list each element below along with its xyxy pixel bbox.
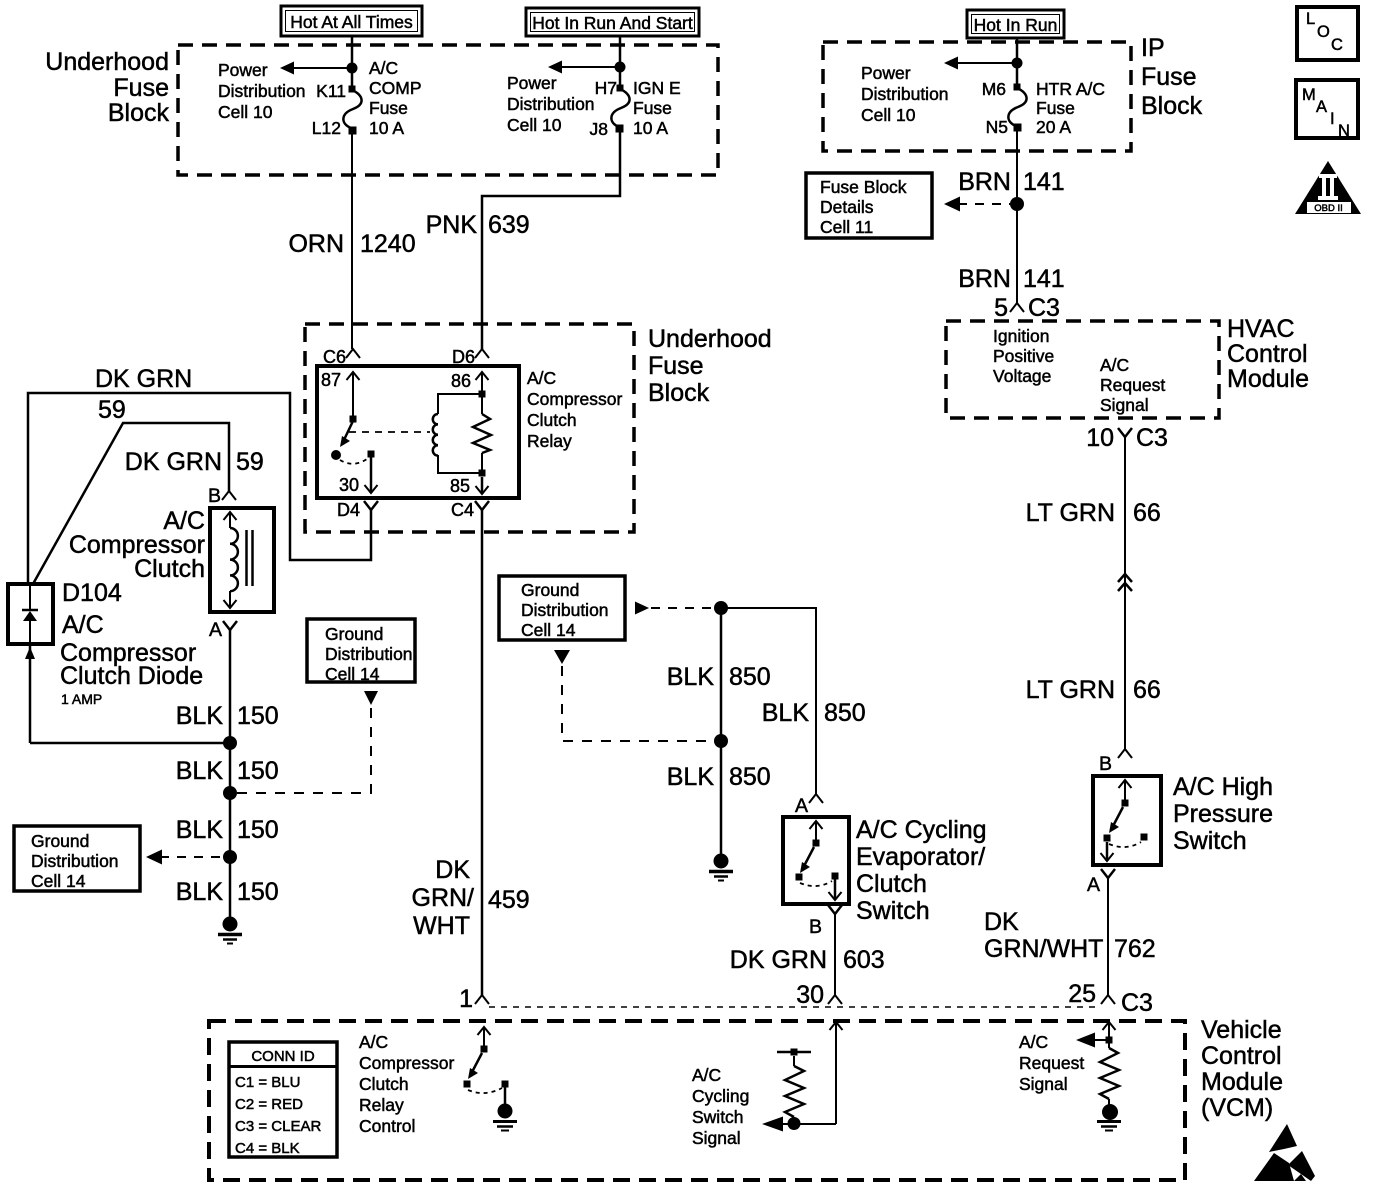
connector pin 10 C3 (HVAC) xyxy=(1086,424,1168,452)
node: splice S4 (BLK 850 upper) xyxy=(714,601,728,615)
svg-text:Control: Control xyxy=(1201,1042,1282,1070)
label: BLK 150 (1) xyxy=(176,702,279,730)
relay pin 87 arrow xyxy=(321,370,360,416)
label: A/C Compressor Clutch xyxy=(69,507,205,583)
connector pin A (compressor clutch) xyxy=(209,619,237,641)
svg-text:Underhood: Underhood xyxy=(45,48,169,76)
IP fuse block boundary xyxy=(823,42,1131,151)
svg-text:N5: N5 xyxy=(986,117,1008,137)
svg-text:Control: Control xyxy=(359,1116,415,1136)
svg-text:Fuse: Fuse xyxy=(633,98,672,118)
label: ORN 1240 xyxy=(288,230,415,258)
ground: G (left BLK 150) xyxy=(218,917,242,944)
wire: Hot At All Times feed to A/C COMP fuse xyxy=(351,36,354,88)
svg-text:Distribution: Distribution xyxy=(861,84,949,104)
relay switch contact (pin 30 side) xyxy=(331,450,341,460)
wire: DK GRN 59 branch (diode to clutch B) xyxy=(33,423,229,584)
label: Power Distribution Cell 10 (second) xyxy=(507,73,595,135)
label: A/C Compressor Clutch Relay Control xyxy=(359,1032,454,1136)
svg-text:Distribution: Distribution xyxy=(521,600,609,620)
dashed link: lower tap to splice S5 xyxy=(562,666,712,741)
svg-text:66: 66 xyxy=(1133,499,1161,527)
dashed link: splice S2 to Ground Distribution (right) xyxy=(237,706,371,793)
svg-text:K11: K11 xyxy=(316,81,346,101)
ground: VCM request signal xyxy=(1097,1104,1121,1131)
svg-text:OBD II: OBD II xyxy=(1314,203,1343,214)
svg-text:Cycling: Cycling xyxy=(692,1086,749,1106)
svg-text:10 A: 10 A xyxy=(633,118,668,138)
svg-text:GRN/WHT: GRN/WHT xyxy=(984,935,1103,963)
svg-text:A/C: A/C xyxy=(62,611,104,639)
svg-text:LT GRN: LT GRN xyxy=(1026,676,1115,704)
VCM driver: relay control switch xyxy=(464,1027,509,1104)
svg-text:DK GRN: DK GRN xyxy=(95,365,192,393)
svg-text:150: 150 xyxy=(237,702,279,730)
svg-text:1 AMP: 1 AMP xyxy=(61,691,102,707)
svg-text:Request: Request xyxy=(1100,375,1165,395)
svg-text:Hot At All Times: Hot At All Times xyxy=(290,12,413,32)
label: DK GRN 59 (branch) xyxy=(125,448,264,476)
svg-text:Fuse Block: Fuse Block xyxy=(820,177,907,197)
svg-text:10 A: 10 A xyxy=(369,118,404,138)
label: BLK 150 (2) xyxy=(176,757,279,785)
connector pin B (cycling switch) xyxy=(809,905,842,938)
svg-text:L12: L12 xyxy=(312,118,341,138)
relay coil suppression resistor xyxy=(473,397,491,470)
svg-text:59: 59 xyxy=(236,448,264,476)
relay coil xyxy=(433,391,486,474)
label: BLK 850 (1) xyxy=(667,663,771,691)
svg-text:Power: Power xyxy=(507,73,557,93)
A/C compressor clutch coil xyxy=(210,508,274,612)
label: BLK 850 (3) xyxy=(667,763,771,791)
wire: BLK 150 (clutch A down to ground) xyxy=(229,630,232,924)
node: junction above IGN E fuse xyxy=(615,62,626,73)
svg-text:850: 850 xyxy=(729,663,771,691)
svg-text:Ground: Ground xyxy=(325,624,383,644)
svg-text:Compressor: Compressor xyxy=(527,389,622,409)
node: splice S2 xyxy=(223,786,237,800)
VCM connector row (thin dashed) xyxy=(489,1006,1101,1008)
svg-text:J8: J8 xyxy=(590,119,608,139)
svg-text:150: 150 xyxy=(237,757,279,785)
svg-text:C3: C3 xyxy=(1028,294,1060,322)
svg-text:A/C: A/C xyxy=(359,1032,388,1052)
svg-text:Cell 10: Cell 10 xyxy=(218,102,273,122)
svg-text:850: 850 xyxy=(729,763,771,791)
svg-text:BRN: BRN xyxy=(958,168,1011,196)
arrow: cycling switch signal to label xyxy=(762,1117,792,1132)
svg-text:Distribution: Distribution xyxy=(325,644,413,664)
svg-text:BLK: BLK xyxy=(667,763,715,791)
svg-text:459: 459 xyxy=(488,886,530,914)
svg-text:Power: Power xyxy=(218,60,268,80)
node: splice S5 (BLK 850 lower) xyxy=(714,734,728,748)
label: BLK 150 (3) xyxy=(176,816,279,844)
wire: Hot In Run feed to HTR A/C fuse xyxy=(1016,38,1019,87)
svg-text:20 A: 20 A xyxy=(1036,117,1071,137)
svg-text:Clutch: Clutch xyxy=(134,555,205,583)
svg-text:A/C: A/C xyxy=(1019,1032,1048,1052)
svg-text:C4 = BLK: C4 = BLK xyxy=(235,1140,300,1157)
svg-text:B: B xyxy=(809,916,822,938)
svg-text:850: 850 xyxy=(824,699,866,727)
label: Underhood Fuse Block (top) xyxy=(45,48,169,127)
svg-text:Fuse: Fuse xyxy=(113,74,169,102)
wire: BLK 850 to ground xyxy=(720,608,723,860)
node: splice S3 xyxy=(223,850,237,864)
svg-text:Hot In Run: Hot In Run xyxy=(974,15,1058,35)
svg-text:D104: D104 xyxy=(62,579,122,607)
fuse: HTR A/C Fuse 20 A (terminals M6 / N5) xyxy=(982,79,1105,137)
svg-text:I: I xyxy=(1330,110,1335,128)
connector pin D6 xyxy=(452,347,489,367)
svg-text:IP: IP xyxy=(1141,34,1165,62)
switch: A/C Cycling Evaporator/Clutch Switch xyxy=(783,817,849,904)
svg-text:Switch: Switch xyxy=(856,897,930,925)
svg-text:WHT: WHT xyxy=(413,912,470,940)
svg-text:Cell 10: Cell 10 xyxy=(861,105,916,125)
label: A/C Request Signal (HVAC) xyxy=(1100,355,1165,415)
relay contact dashed throw xyxy=(340,459,367,464)
relay U: A/C Compressor Clutch Relay box xyxy=(317,366,519,498)
label: BLK 850 (2) xyxy=(762,699,866,727)
label: PNK 639 xyxy=(426,211,530,239)
VCM cycling switch signal input xyxy=(777,1022,843,1124)
svg-text:O: O xyxy=(1317,23,1330,41)
svg-text:Cell 14: Cell 14 xyxy=(31,871,86,891)
svg-text:Positive: Positive xyxy=(993,346,1054,366)
diode D104: A/C Compressor Clutch Diode xyxy=(8,584,53,644)
svg-text:Switch: Switch xyxy=(1173,827,1247,855)
connector pin B (high pressure switch) xyxy=(1099,749,1132,775)
wire: Hot In Run And Start feed to IGN E fuse xyxy=(619,36,622,88)
svg-text:L: L xyxy=(1306,10,1315,28)
svg-text:Cell 14: Cell 14 xyxy=(325,664,380,684)
svg-text:A/C Cycling: A/C Cycling xyxy=(856,816,987,844)
svg-text:Cell 10: Cell 10 xyxy=(507,115,562,135)
wire: DK GRN/WHT 459 (relay C4 down to VCM pin 1) xyxy=(481,510,484,995)
svg-text:Power: Power xyxy=(861,63,911,83)
svg-text:762: 762 xyxy=(1114,935,1156,963)
svg-text:BLK: BLK xyxy=(762,699,810,727)
svg-text:(VCM): (VCM) xyxy=(1201,1094,1273,1122)
icon: LOC box xyxy=(1297,7,1358,60)
connector pin A (cycling switch) xyxy=(795,794,823,817)
underhood fuse block boundary (top) xyxy=(178,45,718,175)
svg-text:150: 150 xyxy=(237,878,279,906)
ref box: Fuse Block Details Cell 11 xyxy=(806,173,932,238)
svg-text:Ground: Ground xyxy=(521,580,579,600)
wire: LT GRN 66 (HVAC pin 10 down to high pressure switch B) xyxy=(1124,437,1126,749)
node: junction above HTR A/C fuse xyxy=(1012,58,1023,69)
wire: PNK 639 (fuse J8 down to relay D6) xyxy=(482,132,620,349)
svg-text:BLK: BLK xyxy=(176,878,224,906)
icon: ESD warning logo xyxy=(1254,1124,1315,1181)
svg-text:A/C: A/C xyxy=(1100,355,1129,375)
node: junction above A/C COMP fuse xyxy=(347,63,358,74)
svg-text:COMP: COMP xyxy=(369,78,422,98)
wire: BLK 850 to cycling switch A xyxy=(721,608,816,794)
svg-text:Signal: Signal xyxy=(1100,395,1149,415)
svg-text:BLK: BLK xyxy=(176,816,224,844)
svg-text:A: A xyxy=(1316,98,1327,116)
svg-text:BLK: BLK xyxy=(176,757,224,785)
svg-text:LT GRN: LT GRN xyxy=(1026,499,1115,527)
ground: G (BLK 850) xyxy=(709,854,733,881)
dashed arrow: splice S3 to Ground Distribution (left) xyxy=(146,850,223,865)
svg-text:141: 141 xyxy=(1023,265,1065,293)
ref box: Ground Distribution Cell 14 (center) xyxy=(499,576,625,640)
svg-text:Module: Module xyxy=(1227,365,1309,393)
connector pin 30 (VCM) xyxy=(796,981,842,1009)
relay pin 85 arrow xyxy=(450,470,489,497)
svg-text:30: 30 xyxy=(339,475,359,495)
arrow: to Power Distribution Cell 10 (IP) xyxy=(944,57,1017,70)
connector pin C6 xyxy=(323,347,360,367)
svg-text:5: 5 xyxy=(994,294,1008,322)
label: BLK 150 (4) xyxy=(176,878,279,906)
svg-text:B: B xyxy=(208,485,221,507)
svg-text:Details: Details xyxy=(820,197,874,217)
svg-text:Module: Module xyxy=(1201,1068,1283,1096)
flag: Hot At All Times xyxy=(281,6,422,36)
HVAC control module boundary xyxy=(946,321,1219,418)
svg-text:C2 = RED: C2 = RED xyxy=(235,1096,303,1113)
svg-text:Underhood: Underhood xyxy=(648,325,772,353)
svg-text:BLK: BLK xyxy=(667,663,715,691)
svg-text:Clutch: Clutch xyxy=(527,410,577,430)
fuse: IGN E Fuse 10 A (terminals H7 / J8) xyxy=(590,78,681,139)
svg-text:PNK: PNK xyxy=(426,211,478,239)
arrow: to Power Distribution Cell 10 (second) xyxy=(548,61,620,74)
svg-text:87: 87 xyxy=(321,370,341,390)
svg-text:HTR A/C: HTR A/C xyxy=(1036,79,1105,99)
switch: A/C High Pressure Switch xyxy=(1093,776,1161,865)
label: DK GRN/WHT 762 xyxy=(984,908,1156,963)
svg-text:A/C: A/C xyxy=(369,58,398,78)
label: HVAC Control Module xyxy=(1227,315,1309,393)
svg-text:141: 141 xyxy=(1023,168,1065,196)
label: A/C Cycling Evaporator/ Clutch Switch xyxy=(856,816,987,925)
svg-text:DK: DK xyxy=(984,908,1019,936)
svg-text:A: A xyxy=(795,795,808,817)
label: Vehicle Control Module (VCM) xyxy=(1201,1016,1283,1122)
svg-text:A: A xyxy=(209,619,222,641)
svg-text:Ground: Ground xyxy=(31,831,89,851)
flag: Hot In Run And Start xyxy=(526,8,699,36)
arrow: Ground Distribution (center) lower tap xyxy=(554,650,570,664)
svg-text:85: 85 xyxy=(450,476,470,496)
connector pin D4 xyxy=(337,500,378,520)
svg-text:30: 30 xyxy=(796,981,824,1009)
wire: diode to BLK 150 splice (with direction arrow) xyxy=(25,644,230,743)
svg-text:Cell 11: Cell 11 xyxy=(820,217,873,237)
arrow: request signal to label xyxy=(1076,1033,1109,1048)
wire: DK GRN 603 (cycling switch B down to VCM pin 30) xyxy=(834,914,836,995)
svg-text:59: 59 xyxy=(98,396,126,424)
label: A/C Cycling Switch Signal xyxy=(692,1065,749,1148)
svg-text:ORN: ORN xyxy=(288,230,344,258)
svg-text:C3 = CLEAR: C3 = CLEAR xyxy=(235,1118,321,1135)
svg-text:1240: 1240 xyxy=(360,230,416,258)
svg-text:Clutch: Clutch xyxy=(856,870,927,898)
svg-text:Signal: Signal xyxy=(692,1128,741,1148)
svg-text:25: 25 xyxy=(1068,980,1096,1008)
svg-text:C: C xyxy=(1331,36,1343,54)
svg-text:A: A xyxy=(1087,874,1100,896)
label: A/C Compressor Clutch Relay xyxy=(527,368,622,451)
svg-text:DK GRN: DK GRN xyxy=(125,448,222,476)
svg-text:Clutch: Clutch xyxy=(359,1074,409,1094)
svg-text:C3: C3 xyxy=(1136,424,1168,452)
node: splice S1 (clutch A / diode) xyxy=(223,736,237,750)
svg-text:Distribution: Distribution xyxy=(31,851,119,871)
relay mechanical link (dashed) xyxy=(349,431,430,433)
label: A/C High Pressure Switch xyxy=(1173,773,1273,855)
wire: DK GRN/WHT 762 (high pressure switch A down to VCM pin 25) xyxy=(1107,878,1109,995)
label: DK GRN 603 xyxy=(730,946,885,974)
ground: VCM relay driver xyxy=(493,1104,517,1131)
svg-text:Distribution: Distribution xyxy=(507,94,595,114)
svg-text:Relay: Relay xyxy=(359,1095,404,1115)
wire: ORN 1240 (fuse L12 down to relay C6) xyxy=(351,134,353,349)
wire break symbol xyxy=(1118,574,1132,591)
label: BRN 141 (lower) xyxy=(958,265,1065,293)
connector pin 25 C3 (VCM) xyxy=(1068,980,1153,1017)
svg-text:150: 150 xyxy=(237,816,279,844)
svg-text:Cell 14: Cell 14 xyxy=(521,620,576,640)
svg-text:Fuse: Fuse xyxy=(648,352,704,380)
ref box: Ground Distribution Cell 14 (mid) xyxy=(307,619,415,684)
svg-text:M: M xyxy=(1302,86,1316,104)
relay pin 86 arrow xyxy=(451,371,489,393)
table: CONN ID xyxy=(229,1042,337,1157)
label: D104 A/C Compressor Clutch Diode 1 AMP xyxy=(60,579,203,707)
svg-text:Distribution: Distribution xyxy=(218,81,306,101)
VCM boundary xyxy=(209,1021,1185,1180)
connector pin 1 (VCM) xyxy=(459,985,489,1013)
svg-text:639: 639 xyxy=(488,211,530,239)
svg-text:Control: Control xyxy=(1227,340,1308,368)
connector pin A (high pressure switch) xyxy=(1087,869,1115,896)
svg-text:H7: H7 xyxy=(595,78,617,98)
svg-text:M6: M6 xyxy=(982,79,1006,99)
label: IP Fuse Block xyxy=(1141,34,1203,120)
arrow: from Ground Distribution (mid) xyxy=(364,691,378,705)
svg-text:Compressor: Compressor xyxy=(359,1053,454,1073)
svg-text:BRN: BRN xyxy=(958,265,1011,293)
svg-text:Relay: Relay xyxy=(527,431,572,451)
wire: DK GRN 59 (relay D4 to clutch diode) xyxy=(28,393,371,584)
label: DK GRN/WHT 459 xyxy=(412,856,530,940)
svg-text:86: 86 xyxy=(451,371,471,391)
svg-text:CONN ID: CONN ID xyxy=(251,1048,315,1065)
svg-text:A/C: A/C xyxy=(527,368,556,388)
svg-text:Request: Request xyxy=(1019,1053,1084,1073)
VCM request signal input xyxy=(1100,1022,1119,1105)
svg-text:Fuse: Fuse xyxy=(1141,63,1197,91)
svg-text:DK: DK xyxy=(435,856,470,884)
svg-text:Clutch Diode: Clutch Diode xyxy=(60,662,203,690)
ref box: Ground Distribution Cell 14 (left) xyxy=(14,826,140,891)
svg-text:Block: Block xyxy=(648,379,710,407)
svg-text:Hot In Run And Start: Hot In Run And Start xyxy=(532,13,693,33)
svg-text:C1 = BLU: C1 = BLU xyxy=(235,1074,300,1091)
underhood fuse block boundary (relay) xyxy=(305,324,634,532)
svg-text:A/C: A/C xyxy=(692,1065,721,1085)
svg-text:Signal: Signal xyxy=(1019,1074,1068,1094)
arrow: Ground Distribution (center) to BLK 850 splice xyxy=(635,602,712,615)
svg-text:B: B xyxy=(1099,753,1112,775)
svg-text:A/C High: A/C High xyxy=(1173,773,1273,801)
svg-text:Block: Block xyxy=(1141,92,1203,120)
arrow: to Power Distribution Cell 10 xyxy=(280,62,352,75)
node: BRN 141 splice xyxy=(1010,197,1024,211)
svg-text:Pressure: Pressure xyxy=(1173,800,1273,828)
svg-text:BLK: BLK xyxy=(176,702,224,730)
fuse: A/C COMP Fuse 10 A (terminals K11 / L12) xyxy=(312,58,422,138)
connector pin C4 xyxy=(451,500,489,520)
flag: Hot In Run xyxy=(967,10,1064,38)
svg-text:IGN E: IGN E xyxy=(633,78,681,98)
node: cycling signal junction xyxy=(788,1117,801,1130)
label: A/C Request Signal (VCM) xyxy=(1019,1032,1084,1094)
svg-text:Ignition: Ignition xyxy=(993,326,1049,346)
connector pin 5 C3 (HVAC) xyxy=(994,294,1060,322)
wire: BRN 141 (fuse N5 down to HVAC pin 5) xyxy=(1016,131,1018,303)
label: Underhood Fuse Block (relay) xyxy=(648,325,772,407)
svg-text:Block: Block xyxy=(108,99,170,127)
svg-text:Voltage: Voltage xyxy=(993,366,1051,386)
svg-text:D4: D4 xyxy=(337,500,360,520)
label: BRN 141 (upper) xyxy=(958,168,1065,196)
relay pin 30 arrow xyxy=(339,451,378,496)
icon: OBD II triangle xyxy=(1295,161,1361,214)
svg-text:C4: C4 xyxy=(451,500,474,520)
label: LT GRN 66 (lower) xyxy=(1026,676,1161,704)
svg-text:Fuse: Fuse xyxy=(1036,98,1075,118)
label: LT GRN 66 (upper) xyxy=(1026,499,1161,527)
svg-text:GRN/: GRN/ xyxy=(412,884,475,912)
svg-text:603: 603 xyxy=(843,946,885,974)
label: Power Distribution Cell 10 (IP) xyxy=(861,63,949,125)
svg-text:Fuse: Fuse xyxy=(369,98,408,118)
relay switch arm xyxy=(340,416,357,448)
svg-text:10: 10 xyxy=(1086,424,1114,452)
svg-text:HVAC: HVAC xyxy=(1227,315,1295,343)
label: DK GRN 59 (upper) xyxy=(95,365,192,424)
svg-text:C3: C3 xyxy=(1121,989,1153,1017)
connector pin B (compressor clutch) xyxy=(208,485,236,507)
svg-text:Vehicle: Vehicle xyxy=(1201,1016,1282,1044)
svg-text:1: 1 xyxy=(459,985,473,1013)
svg-text:DK GRN: DK GRN xyxy=(730,946,827,974)
label: Ignition Positive Voltage xyxy=(993,326,1054,386)
icon: MAIN box xyxy=(1296,80,1358,140)
label: Power Distribution Cell 10 (left) xyxy=(218,60,306,122)
dashed arrow: to Fuse Block Details Cell 11 xyxy=(944,197,1010,212)
svg-text:Evaporator/: Evaporator/ xyxy=(856,843,985,871)
svg-text:N: N xyxy=(1338,122,1350,140)
svg-text:66: 66 xyxy=(1133,676,1161,704)
svg-text:Switch: Switch xyxy=(692,1107,744,1127)
